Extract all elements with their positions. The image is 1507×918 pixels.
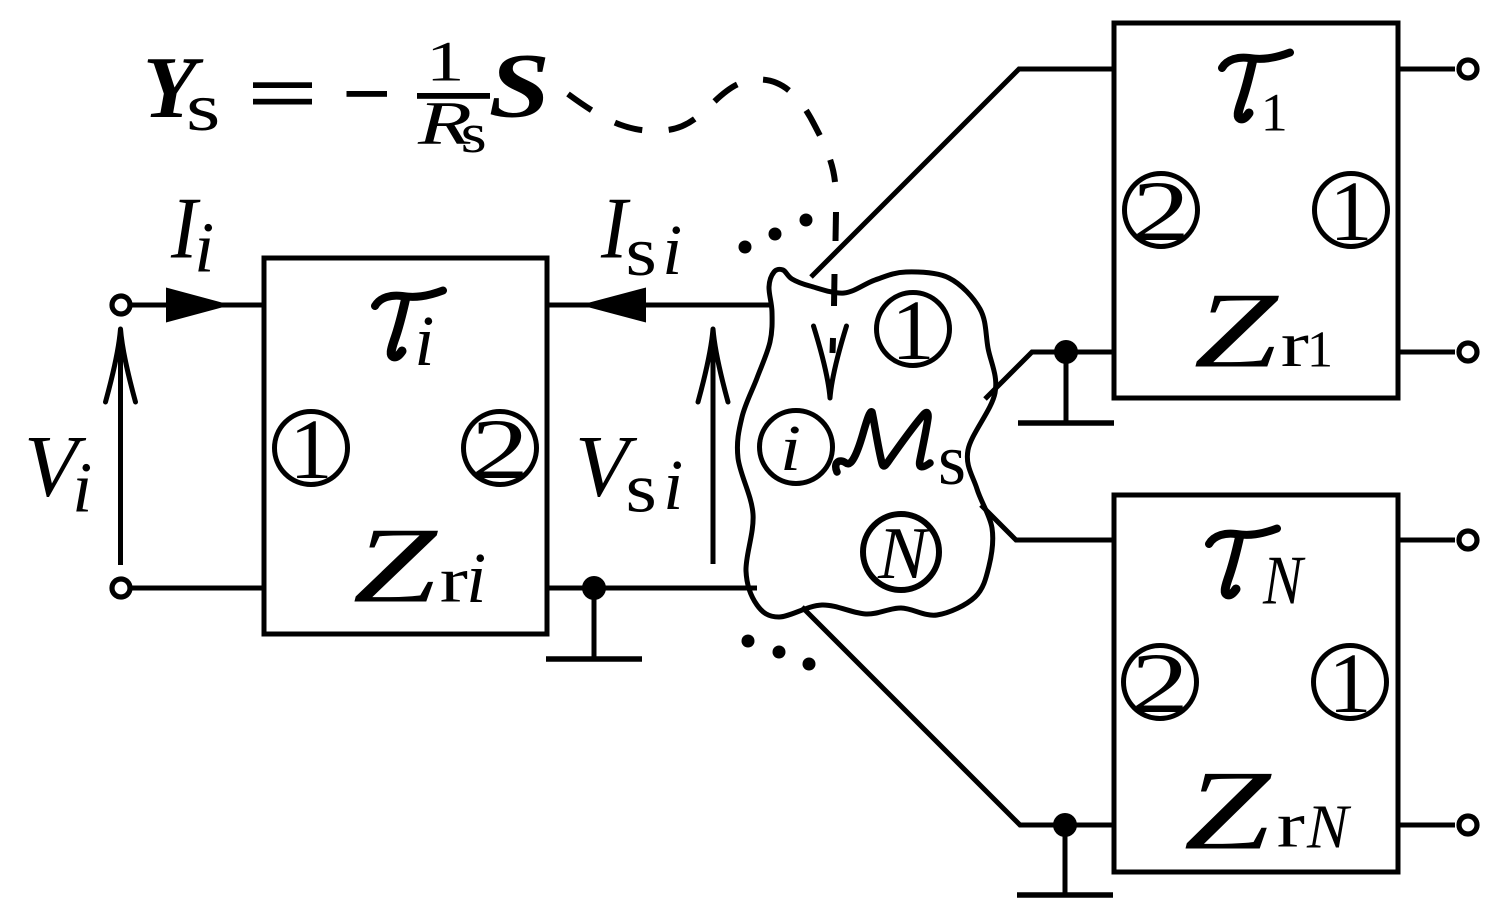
- svg-text:S: S: [489, 34, 550, 136]
- svg-text:i: i: [414, 301, 434, 381]
- svg-text:i: i: [466, 538, 486, 618]
- svg-text:r: r: [1277, 790, 1305, 862]
- svg-text:1: 1: [1307, 322, 1333, 379]
- svg-text:1: 1: [1261, 83, 1288, 143]
- svg-text:1: 1: [290, 401, 333, 497]
- svg-text:s: s: [626, 450, 657, 527]
- svg-text:1: 1: [1329, 635, 1372, 731]
- svg-text:1: 1: [1330, 163, 1373, 259]
- svg-text:N: N: [1306, 794, 1352, 862]
- svg-text:s: s: [186, 71, 220, 146]
- svg-text:i: i: [663, 445, 683, 525]
- svg-text:2: 2: [1131, 636, 1189, 731]
- svg-text:Z: Z: [1194, 271, 1280, 390]
- svg-text:Z: Z: [1184, 747, 1273, 874]
- svg-text:s: s: [461, 103, 487, 165]
- svg-text:s: s: [626, 214, 657, 291]
- svg-text:i: i: [72, 448, 92, 528]
- svg-text:2: 2: [1132, 164, 1190, 259]
- svg-text:Z: Z: [353, 506, 439, 625]
- svg-text:i: i: [662, 210, 682, 290]
- svg-text:1: 1: [426, 30, 464, 93]
- svg-text:N: N: [1262, 542, 1306, 620]
- svg-text:i: i: [780, 412, 801, 484]
- svg-text:s: s: [938, 420, 966, 500]
- svg-text:r: r: [440, 545, 468, 617]
- svg-text:N: N: [877, 513, 931, 595]
- svg-text:i: i: [194, 208, 214, 288]
- svg-text:1: 1: [892, 282, 935, 378]
- svg-text:2: 2: [471, 402, 529, 497]
- svg-text:r: r: [1281, 309, 1309, 381]
